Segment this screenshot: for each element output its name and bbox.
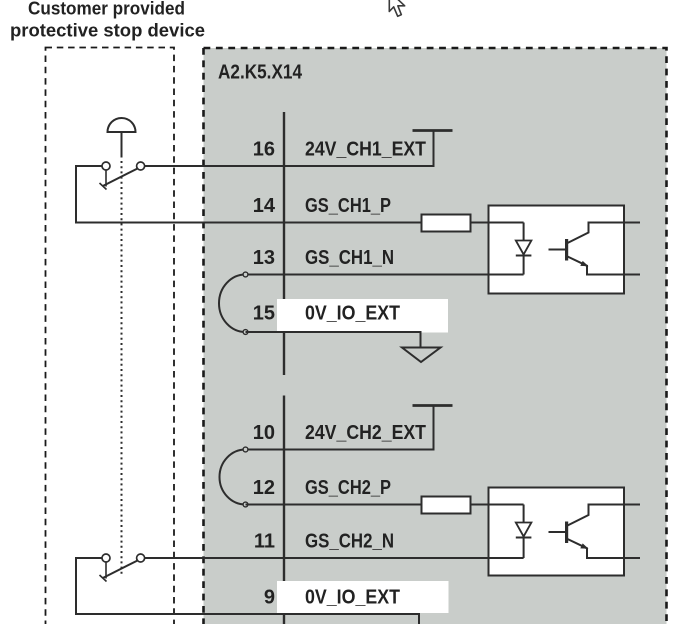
svg-text:10: 10 [253,422,275,444]
24V supply bar CH2 [413,404,453,407]
svg-text:9: 9 [264,587,275,609]
svg-text:A2.K5.X14: A2.K5.X14 [218,62,303,84]
terminal bus line channel 1 [283,112,285,375]
resistor R2 [422,497,471,514]
svg-text:16: 16 [253,139,275,161]
ground symbol CH1 [402,348,441,363]
wire pin9 0V_IO_EXT with switch frame [76,558,419,624]
terminal bus line channel 2 [283,396,285,624]
svg-text:14: 14 [253,195,276,217]
jumper arc pin13 to pin15 [219,275,246,333]
svg-text:Customer provided: Customer provided [28,0,185,19]
phototransistor Q1 emitter arrow [580,261,588,266]
switch S2 contact left [102,554,110,562]
white highlight label box 0V_IO_EXT pin 15 [277,299,448,333]
phototransistor Q2 emitter [568,539,641,558]
mouse cursor [389,0,404,16]
svg-text:GS_CH2_N: GS_CH2_N [305,531,394,553]
svg-text:24V_CH2_EXT: 24V_CH2_EXT [305,422,426,444]
svg-text:protective stop device: protective stop device [10,21,205,41]
switch S1 contact left [102,162,110,170]
phototransistor Q1 emitter [568,257,641,275]
LED D2 cathode bar [516,537,532,539]
wire pin14 GS_CH1_P with switch frame [76,166,422,223]
svg-text:GS_CH2_P: GS_CH2_P [305,477,391,499]
LED D1 cathode bar [516,255,532,257]
wire pin15 0V_IO_EXT [246,332,421,348]
svg-text:11: 11 [254,531,275,553]
mechanical linkage dotted line [121,161,123,577]
e-stop button head [108,118,136,132]
jumper arc pin10 to pin12 [220,450,246,505]
node pin12 [243,502,248,507]
customer device dashed enclosure [46,48,175,624]
node pin13 [243,272,248,277]
phototransistor Q2 emitter arrow [580,543,588,548]
svg-text:12: 12 [253,477,275,499]
LED D1 anode lead [523,223,525,241]
wire pin13 GS_CH1_N [246,274,524,276]
wire pin12 GS_CH2_P [246,504,422,506]
node pin10 [243,447,248,452]
wire pin10 24V_CH2_EXT [246,406,434,450]
wire pin11 GS_CH2_N [145,557,524,559]
e-stop button stem [121,132,123,158]
white highlight label box 0V_IO_EXT pin 9 [277,581,449,613]
24V supply bar CH1 [413,129,453,132]
LED D2 cathode lead [523,538,525,559]
resistor R1 [422,215,471,232]
switch S1 blade tick [100,183,107,190]
phototransistor Q1 collector [568,223,641,244]
svg-text:24V_CH1_EXT: 24V_CH1_EXT [305,139,426,161]
LED D1 triangle [516,241,532,255]
phototransistor Q1 base lead [549,249,566,251]
node pin15 [243,330,248,335]
wire resistor R2 to optocoupler [471,504,524,506]
switch S1 contact right [137,162,145,170]
switch S2 fixed contact stub [105,562,107,578]
LED D2 triangle [516,523,532,537]
optocoupler U2 box [489,488,625,576]
module box A2.K5.X14 (gray dashed enclosure) [204,48,667,624]
LED D2 anode lead [523,505,525,523]
switch S2 contact right [137,554,145,562]
phototransistor Q2 base lead [549,531,566,533]
switch S2 blade [103,561,138,578]
svg-text:0V_IO_EXT: 0V_IO_EXT [305,587,400,609]
phototransistor Q1 base bar [565,239,568,261]
svg-text:GS_CH1_N: GS_CH1_N [305,247,394,269]
switch S1 blade [103,169,138,186]
caption: Customer provided protective stop device [10,0,205,41]
phototransistor Q2 base bar [565,522,568,544]
svg-text:13: 13 [253,247,275,269]
optocoupler U1 box [489,206,625,294]
svg-text:15: 15 [253,303,275,325]
wire resistor R1 to optocoupler [471,222,524,224]
svg-text:GS_CH1_P: GS_CH1_P [305,195,391,217]
phototransistor Q2 collector [568,505,641,526]
switch S1 fixed contact stub [105,170,107,186]
svg-text:0V_IO_EXT: 0V_IO_EXT [305,303,400,325]
switch S2 blade tick [100,575,107,582]
LED D1 cathode lead [523,256,525,275]
wire pin16 24V_CH1_EXT [145,131,434,167]
